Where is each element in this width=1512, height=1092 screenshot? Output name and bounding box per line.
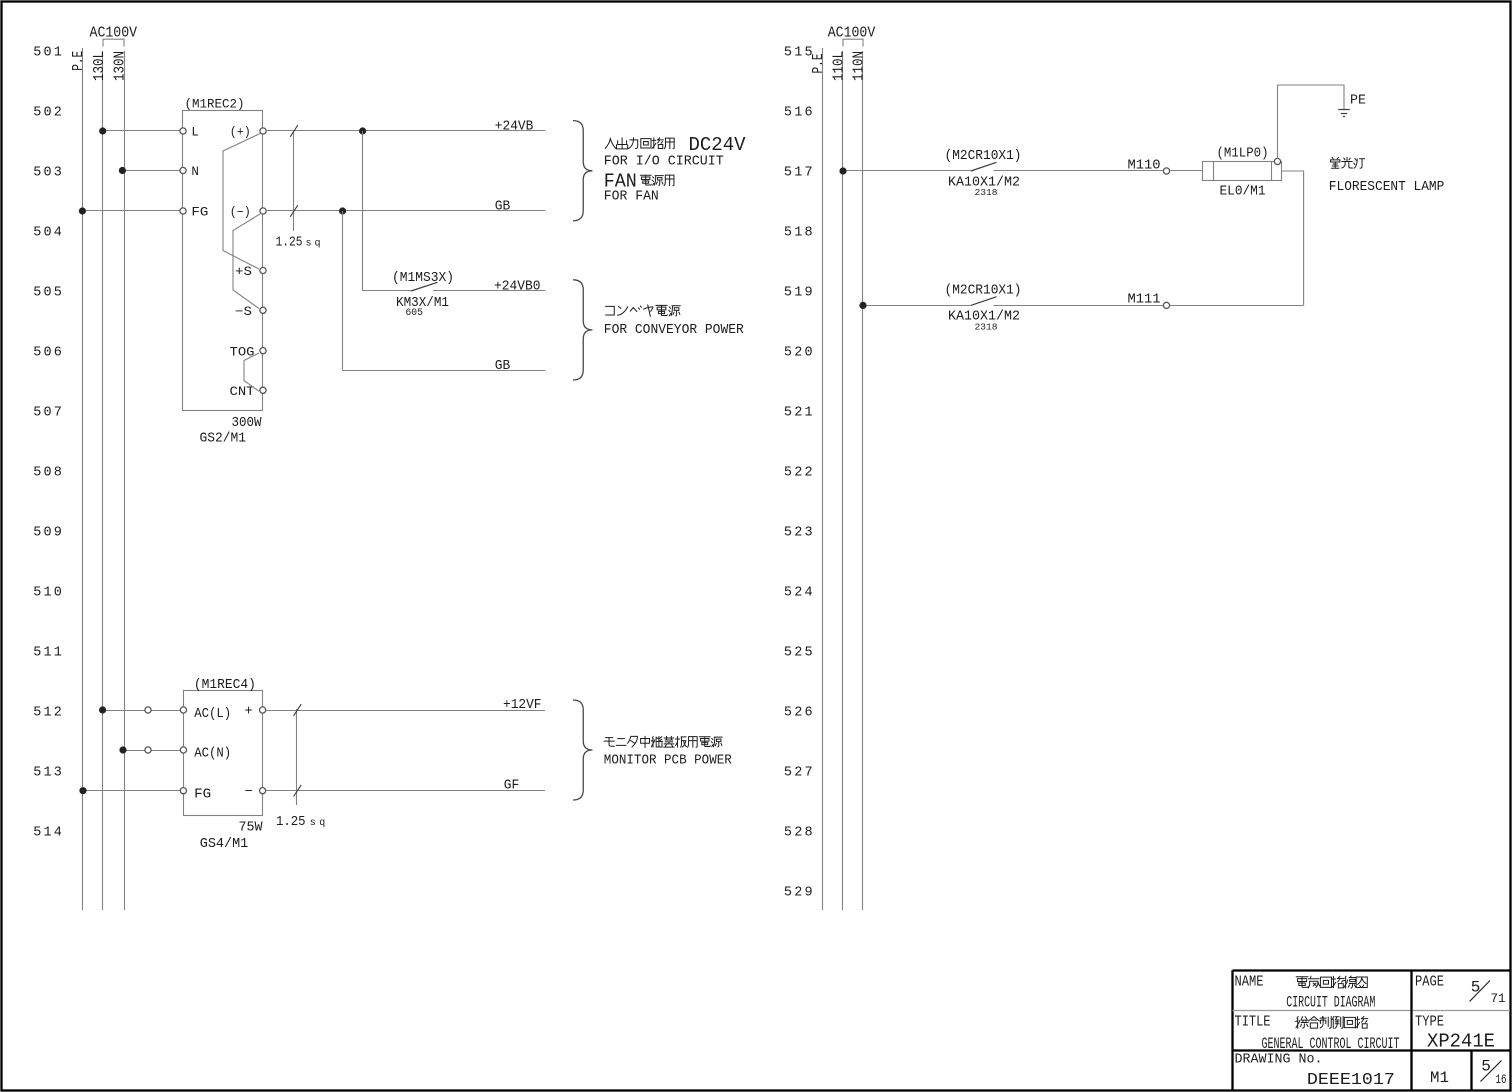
value 75W (239, 820, 264, 835)
label KA10X1/M2 row517 (948, 174, 1020, 190)
svg-text:527: 527 (784, 766, 815, 781)
svg-text:MONITOR PCB POWER: MONITOR PCB POWER (604, 754, 732, 769)
svg-text:130N: 130N (111, 51, 128, 81)
label (M1REC4) (194, 678, 256, 693)
pin number 2318 row519 (975, 321, 998, 332)
wire 130N to REC2 pin N (124, 170, 183, 172)
svg-text:130L: 130L (91, 51, 108, 81)
terminal (-) (230, 206, 266, 220)
pin number 605 (405, 307, 423, 319)
ground PE (1338, 110, 1350, 117)
svg-text:TITLE: TITLE (1235, 1014, 1271, 1031)
wire M110 to lamp (1170, 170, 1203, 172)
note MONITOR PCB POWER (604, 754, 732, 769)
net label GB upper (495, 199, 511, 214)
wire tap to KM3X contact (363, 290, 411, 292)
svg-text:DRAWING No.: DRAWING No. (1235, 1052, 1323, 1068)
wire 130L to REC4 AC(L) (103, 710, 183, 712)
junction +24VB tap (359, 127, 366, 134)
title sheet M1 cell (1430, 1069, 1449, 1087)
svg-text:GENERAL CONTROL CIRCUIT: GENERAL CONTROL CIRCUIT (1262, 1035, 1400, 1053)
power supply GS2/M1 (M1REC2) body (183, 111, 263, 411)
svg-text:+24VB: +24VB (495, 119, 534, 134)
net label P.E right (810, 54, 827, 74)
title block grid (1233, 970, 1511, 1090)
svg-text:2318: 2318 (975, 187, 998, 198)
power supply GS4/M1 (M1REC4) body (184, 691, 263, 816)
connector circle AC(L) (145, 707, 151, 713)
wire 110N to contact 519 (863, 305, 971, 307)
svg-text:526: 526 (784, 706, 815, 721)
bus P.E right (822, 48, 824, 910)
net label +24VB0 (494, 279, 541, 294)
svg-text:(M2CR10X1): (M2CR10X1) (945, 283, 1022, 298)
title DRAWING No cell (1235, 1052, 1395, 1090)
net label 130L (91, 51, 108, 81)
wire GB lower (343, 370, 545, 372)
svg-text:513: 513 (33, 766, 64, 781)
net label 110N (850, 51, 867, 81)
wire AC100V bracket right (843, 39, 863, 46)
terminal FG (180, 205, 209, 219)
svg-text:(M1REC2): (M1REC2) (185, 98, 245, 112)
svg-text:N: N (191, 165, 199, 179)
label GS4/M1 (200, 837, 249, 852)
svg-text:522: 522 (784, 466, 815, 481)
label (M1LP0) (1217, 147, 1269, 162)
svg-text:523: 523 (784, 526, 815, 541)
svg-text:TYPE: TYPE (1415, 1014, 1444, 1031)
svg-text:504: 504 (33, 226, 64, 241)
internal link (-) to -S (233, 214, 260, 309)
wire +24VB (266, 130, 545, 132)
svg-text:511: 511 (33, 646, 64, 661)
svg-text:(M1LP0): (M1LP0) (1217, 147, 1269, 162)
terminal AC(N) (180, 747, 231, 762)
svg-text:507: 507 (33, 406, 64, 421)
svg-text:(+): (+) (230, 126, 251, 140)
svg-text:110L: 110L (830, 51, 847, 81)
net label +24VB (495, 119, 534, 134)
svg-text:521: 521 (784, 406, 815, 421)
svg-text:518: 518 (784, 226, 815, 241)
title sheet 5/16 cell (1481, 1058, 1507, 1088)
svg-text:110N: 110N (850, 51, 867, 81)
svg-text:DC24V: DC24V (689, 134, 747, 156)
wire 130N to REC4 AC(N) (124, 750, 183, 752)
svg-text:512: 512 (33, 706, 64, 721)
wire GB tap down (342, 211, 344, 371)
title PAGE cell (1415, 974, 1506, 1006)
bus 110L (842, 51, 844, 910)
value 300W (232, 416, 263, 431)
wire 130L to REC2 pin L (103, 130, 183, 132)
svg-text:+S: +S (235, 265, 252, 279)
label EL0/M1 (1220, 185, 1266, 200)
wire GF (266, 790, 545, 792)
svg-text:GS2/M1: GS2/M1 (200, 432, 247, 447)
terminal + REC4 (244, 705, 265, 720)
terminal (+) (230, 126, 266, 140)
svg-text:525: 525 (784, 646, 815, 661)
terminal TOG (230, 345, 267, 359)
svg-text:(M1MS3X): (M1MS3X) (392, 271, 454, 286)
net label 130N (111, 51, 128, 81)
junction 130L/AC(L) (99, 706, 106, 713)
label KA10X1/M2 row519 (948, 309, 1020, 325)
svg-text:PE: PE (1350, 94, 1366, 109)
bus P.E left (82, 48, 84, 910)
svg-text:q: q (315, 239, 321, 250)
svg-text:2318: 2318 (975, 321, 998, 332)
brace monitor group (573, 700, 593, 800)
svg-text:516: 516 (784, 106, 815, 121)
svg-text:−S: −S (235, 305, 252, 319)
svg-text:517: 517 (784, 166, 815, 181)
label (M2CR10X1) row519 (945, 283, 1022, 298)
terminal L (180, 125, 199, 139)
svg-text:DEEE1017: DEEE1017 (1307, 1070, 1395, 1089)
note JP fluorescent lamp (1330, 157, 1364, 168)
terminal FG REC4 (180, 787, 211, 802)
svg-text:FG: FG (191, 205, 208, 219)
svg-text:(M1REC4): (M1REC4) (194, 678, 256, 693)
wire lamp to PE ground (1278, 85, 1345, 159)
svg-text:+24VB0: +24VB0 (494, 279, 541, 294)
terminal lamp PE (1274, 158, 1280, 164)
connector circle AC(N) (145, 747, 151, 753)
wire M111 to lamp return (1170, 305, 1304, 307)
svg-text:75W: 75W (239, 820, 264, 835)
svg-text:(−): (−) (230, 206, 251, 220)
svg-text:GB: GB (495, 199, 511, 214)
note JP I/O circuit DC24V (605, 134, 746, 156)
title TYPE cell (1415, 1014, 1495, 1053)
junction 130N/N (119, 167, 126, 174)
svg-text:q: q (319, 818, 325, 829)
wire P.E to REC2 pin FG (83, 210, 183, 212)
value 1.25sq REC4 (276, 815, 325, 830)
contact KA10X1/M2 (M2CR10X1) row519 (971, 297, 1164, 306)
wire +12VF (266, 710, 545, 712)
title NAME cell (1235, 974, 1376, 1012)
terminal -S (235, 305, 266, 319)
title TITLE cell (1235, 1014, 1400, 1053)
wire gauge line 1.25sq REC2 (290, 125, 298, 231)
svg-text:514: 514 (33, 826, 64, 841)
svg-text:1.25: 1.25 (276, 236, 303, 251)
terminal +S (235, 265, 266, 279)
value 1.25sq REC2 (276, 236, 321, 251)
net label P.E left (70, 51, 87, 71)
terminal N (180, 165, 199, 179)
wire gauge line 1.25sq REC4 (294, 704, 302, 805)
svg-text:L: L (191, 125, 199, 139)
svg-text:AC(L): AC(L) (194, 707, 231, 722)
svg-text:503: 503 (33, 166, 64, 181)
junction P.E/FG (79, 207, 86, 214)
svg-text:M111: M111 (1128, 293, 1161, 308)
svg-text:+12VF: +12VF (503, 698, 542, 713)
junction P.E/FG REC4 (79, 787, 86, 794)
svg-text:300W: 300W (232, 416, 263, 431)
fluorescent lamp EL0/M1 (M1LP0) body (1203, 162, 1282, 181)
svg-text:FG: FG (194, 787, 211, 802)
left rail row numbers 501-514 (33, 46, 64, 841)
net label AC100V right (828, 25, 876, 41)
terminal M110 (1163, 168, 1169, 174)
svg-text:GS4/M1: GS4/M1 (200, 837, 249, 852)
contact KA10X1/M2 (M2CR10X1) row517 (971, 162, 1164, 171)
label (M2CR10X1) row517 (945, 149, 1022, 164)
note JP conveyor power (606, 305, 681, 317)
svg-text:16: 16 (1496, 1072, 1507, 1087)
note FOR I/O CIRCUIT (604, 155, 724, 170)
svg-text:520: 520 (784, 346, 815, 361)
svg-text:FOR FAN: FOR FAN (604, 190, 659, 205)
junction 110L row517 (839, 167, 846, 174)
note FOR CONVEYOR POWER (604, 323, 744, 338)
brace DC24V group (573, 121, 593, 221)
label (M1MS3X) (392, 271, 454, 286)
note JP monitor PCB power (604, 736, 722, 747)
svg-text:PAGE: PAGE (1415, 974, 1444, 991)
svg-text:M110: M110 (1128, 158, 1161, 173)
junction 110N row519 (859, 302, 866, 309)
net label GB lower (495, 359, 511, 374)
svg-text:506: 506 (33, 346, 64, 361)
label (M1REC2) (185, 98, 245, 112)
junction GB tap (339, 207, 346, 214)
right rail row numbers 515-529 (784, 46, 815, 901)
svg-text:519: 519 (784, 286, 815, 301)
svg-text:EL0/M1: EL0/M1 (1220, 185, 1266, 200)
wire 110L to contact 517 (843, 170, 971, 172)
svg-text:s: s (306, 239, 312, 250)
wire AC100V bracket left (103, 39, 124, 46)
label KM3X/M1 (396, 295, 449, 311)
svg-text:FLORESCENT LAMP: FLORESCENT LAMP (1329, 180, 1445, 195)
svg-text:CNT: CNT (230, 385, 256, 399)
svg-text:GB: GB (495, 359, 511, 374)
svg-text:FOR I/O CIRCUIT: FOR I/O CIRCUIT (604, 155, 724, 170)
wire lamp right down (1282, 171, 1304, 305)
svg-text:5: 5 (1471, 979, 1481, 997)
svg-text:−: − (244, 785, 252, 800)
svg-text:1.25: 1.25 (276, 815, 306, 830)
svg-text:FOR CONVEYOR POWER: FOR CONVEYOR POWER (604, 323, 744, 338)
brace conveyor group (573, 280, 593, 380)
net label AC100V left (90, 25, 138, 41)
svg-text:505: 505 (33, 286, 64, 301)
bus 130L (102, 51, 104, 910)
svg-text:(M2CR10X1): (M2CR10X1) (945, 149, 1022, 164)
svg-text:528: 528 (784, 826, 815, 841)
svg-text:71: 71 (1491, 991, 1506, 1006)
terminal - REC4 (244, 785, 265, 800)
internal link (+) to +S (223, 134, 260, 270)
note JP FAN power (604, 171, 674, 193)
net label GF (504, 779, 520, 794)
pin number 2318 row517 (975, 187, 998, 198)
svg-text:605: 605 (405, 307, 423, 319)
note FOR FAN (604, 190, 659, 205)
bus 110N (862, 51, 864, 910)
svg-text:+: + (244, 705, 252, 720)
svg-text:M1: M1 (1430, 1069, 1449, 1087)
svg-text:510: 510 (33, 586, 64, 601)
svg-text:501: 501 (33, 46, 64, 61)
internal link TOG to CNT (244, 353, 259, 391)
junction 130N/AC(N) (119, 746, 126, 753)
net label M110 (1128, 158, 1161, 173)
junction 130L/L (99, 127, 106, 134)
svg-text:NAME: NAME (1235, 974, 1264, 991)
svg-text:CIRCUIT DIAGRAM: CIRCUIT DIAGRAM (1286, 993, 1375, 1011)
bus 130N (124, 51, 126, 910)
label GS2/M1 (200, 432, 247, 447)
net label M111 (1128, 293, 1161, 308)
terminal M111 (1163, 302, 1169, 308)
note FLORESCENT LAMP (1329, 180, 1445, 195)
wire P.E to REC4 FG (83, 790, 183, 792)
svg-text:P.E: P.E (70, 51, 87, 71)
svg-text:XP241E: XP241E (1427, 1031, 1495, 1053)
svg-text:529: 529 (784, 886, 815, 901)
svg-text:524: 524 (784, 586, 815, 601)
svg-text:508: 508 (33, 466, 64, 481)
contact KM3X/M1 (M1MS3X) blade (411, 282, 545, 291)
svg-text:s: s (310, 818, 316, 829)
svg-text:P.E: P.E (810, 54, 827, 74)
svg-text:GF: GF (504, 779, 520, 794)
svg-text:509: 509 (33, 526, 64, 541)
net label +12VF (503, 698, 542, 713)
net label PE (1350, 94, 1366, 109)
svg-text:AC(N): AC(N) (194, 747, 231, 762)
wire GB upper (266, 210, 545, 212)
terminal AC(L) (180, 707, 231, 722)
net label 110L (830, 51, 847, 81)
wire +24VB tap down (362, 131, 364, 291)
svg-text:502: 502 (33, 106, 64, 121)
terminal CNT (230, 385, 267, 399)
